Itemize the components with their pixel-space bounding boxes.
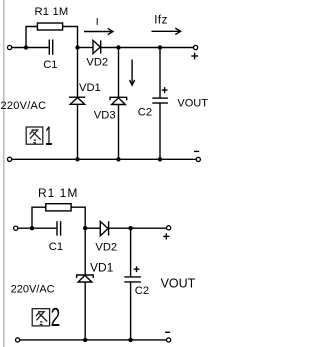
label - at output fig2 <box>165 331 170 333</box>
wire rail B to VD2 fig1 <box>78 47 94 49</box>
svg-text:C1: C1 <box>43 59 57 71</box>
wire bottom rail fig2 <box>20 339 167 341</box>
diode VD1 fig1 wire from rail <box>77 48 79 98</box>
node G (C2 bottom fig1) <box>158 157 162 161</box>
svg-text:I: I <box>96 16 99 28</box>
terminal (AC input bottom fig2) <box>16 338 20 342</box>
node I (R1/C1 right junction fig2) <box>83 226 87 230</box>
svg-text:VD2: VD2 <box>95 241 117 253</box>
svg-text:2: 2 <box>51 302 61 332</box>
zener VD3 fig1 wire from rail <box>118 48 120 98</box>
diode VD1 fig1 (cathode bar up, triangle below) <box>69 96 85 98</box>
node K (VD1 bottom fig2) <box>83 338 87 342</box>
node F (VD3 bottom fig1) <box>116 157 120 161</box>
capacitor C2 fig2 plates <box>124 276 141 278</box>
svg-text:VD2: VD2 <box>86 57 108 69</box>
capacitor C2 fig1 plates <box>152 97 168 99</box>
node C (VD3 top junction fig1) <box>116 45 120 49</box>
terminal (AC input bottom fig1) <box>8 157 12 161</box>
terminal (AC input top, fig1) <box>8 45 12 49</box>
resistor R1 fig2 (branch with box) <box>32 207 46 227</box>
label + at output fig2 <box>163 235 169 237</box>
node E (VD1 bottom fig1) <box>75 157 79 161</box>
wire rail VD2 to output fig2 <box>109 227 167 229</box>
svg-text:Ifz: Ifz <box>154 14 168 26</box>
node L (C2 bottom fig2) <box>128 338 132 342</box>
svg-text:C1: C1 <box>49 241 63 253</box>
caption 图2 glyph box <box>32 309 49 326</box>
svg-text:VOUT: VOUT <box>177 97 208 109</box>
label + at output fig1 <box>191 55 198 57</box>
node J (C2 top junction fig2) <box>128 226 132 230</box>
zener VD1 fig2 wire from rail <box>84 228 86 275</box>
terminal (- output fig2) <box>167 338 171 342</box>
terminal (+ output fig2) <box>167 226 171 230</box>
wire bottom rail fig1 <box>12 158 196 160</box>
diode VD2 fig2 <box>100 222 108 236</box>
wire top rail left segment fig1 <box>12 47 49 49</box>
capacitor C2 fig2 wire from rail <box>130 228 132 276</box>
wire top rail left segment fig2 <box>18 227 56 229</box>
polarity + of C2 fig2 <box>134 268 140 270</box>
node D (C2 top junction fig1) <box>158 45 162 49</box>
current arrow down fig1 <box>131 60 133 85</box>
polarity + of C2 fig1 <box>162 89 168 91</box>
svg-text:1: 1 <box>45 121 53 151</box>
terminal (+ output fig1) <box>194 45 198 49</box>
svg-text:R1 1M: R1 1M <box>35 6 69 18</box>
diode VD2 fig1 <box>93 40 100 53</box>
wire rail to VD2 fig2 <box>85 227 100 229</box>
current arrow I fig1 <box>84 31 112 33</box>
node H (R1/C1 left junction fig2) <box>30 226 34 230</box>
label - at output fig1 <box>194 150 199 152</box>
terminal (AC input top fig2) <box>14 226 18 230</box>
capacitor C2 fig1 wire from rail <box>159 48 161 98</box>
caption 图1 glyph box <box>26 127 43 144</box>
left page border line <box>3 0 5 347</box>
wire rail VD2 to output fig1 <box>101 47 194 49</box>
svg-text:VD1: VD1 <box>90 261 114 275</box>
node B (R1/C1 right junction fig1) <box>75 45 79 49</box>
svg-text:C2: C2 <box>138 106 152 118</box>
svg-text:C2: C2 <box>135 285 149 297</box>
svg-text:220V/AC: 220V/AC <box>1 100 47 112</box>
svg-text:VD1: VD1 <box>79 82 101 94</box>
terminal (- output fig1) <box>196 157 200 161</box>
node A (R1/C1 left junction fig1) <box>24 45 28 49</box>
svg-text:VOUT: VOUT <box>161 277 196 291</box>
zener VD1 fig2 (bar with end ticks, triangle below) <box>77 275 94 278</box>
svg-text:VD3: VD3 <box>94 109 116 121</box>
capacitor C1 fig2 plates <box>56 221 58 235</box>
resistor R1 fig1 (branch with box) <box>26 27 37 47</box>
svg-text:R1 1M: R1 1M <box>38 186 78 200</box>
zener VD3 fig1 (bar with end ticks, triangle below) <box>110 97 127 100</box>
svg-text:220V/AC: 220V/AC <box>11 284 55 296</box>
current arrow Ifz fig1 <box>152 30 180 32</box>
capacitor C1 fig1 plates <box>48 40 50 55</box>
